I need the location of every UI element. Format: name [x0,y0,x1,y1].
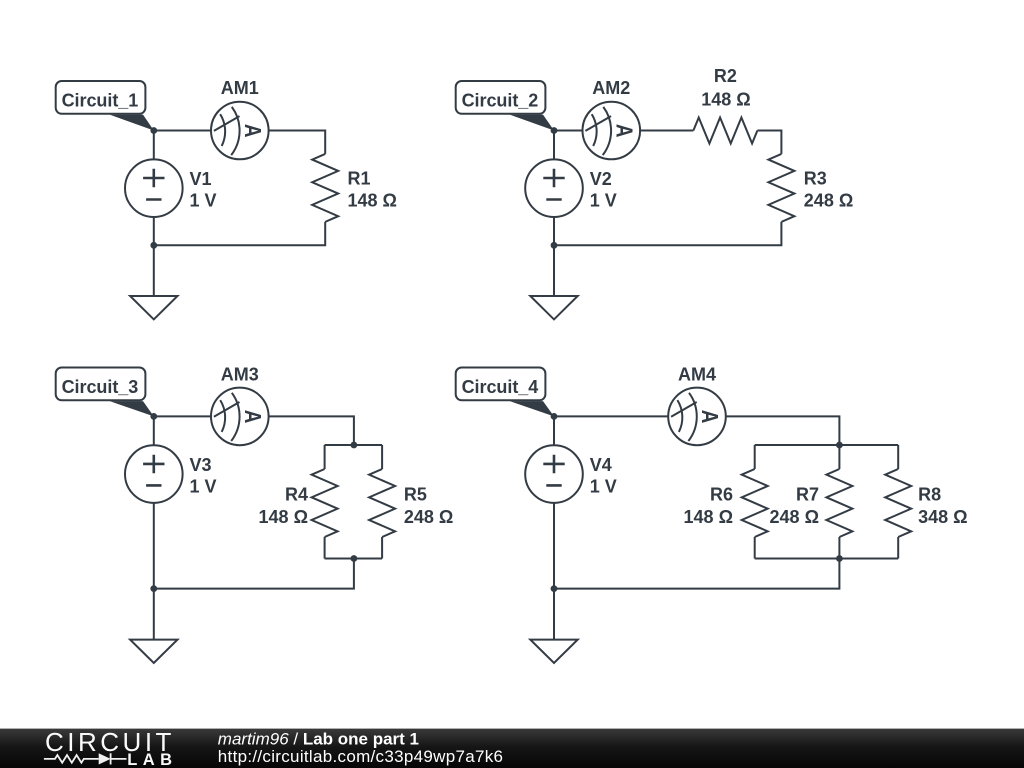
svg-text:1 V: 1 V [190,477,217,497]
resistor R4 (148 &#937;) [312,469,338,537]
svg-text:Circuit_3: Circuit_3 [62,377,139,397]
svg-text:248 Ω: 248 Ω [404,507,453,527]
wire [640,130,693,132]
svg-text:148 Ω: 148 Ω [348,191,397,211]
junction dot [551,413,558,420]
wire [154,559,354,589]
voltage source V2 [525,159,583,217]
wire [325,444,383,446]
wire [553,416,555,445]
wire [381,445,383,469]
wire [153,503,155,589]
svg-text:248 Ω: 248 Ω [770,507,819,527]
svg-text:Circuit_2: Circuit_2 [462,90,539,110]
wire [153,131,155,160]
wire [153,589,155,640]
ammeter AM2 [583,102,641,160]
wire [153,416,155,445]
ammeter AM1 [211,102,269,160]
resistor R8 (348 &#937;) [885,469,911,537]
svg-text:R1: R1 [348,169,371,189]
wire [553,217,555,245]
wire [553,131,555,160]
wire [154,222,325,245]
net flag Circuit_4 [456,368,546,401]
ground (circuit 3) [130,640,177,663]
wire [838,445,840,469]
wire [154,130,211,132]
wire [554,222,781,245]
resistor R3 (248 &#937;) [768,154,794,222]
svg-text:248 Ω: 248 Ω [804,191,853,211]
svg-text:1 V: 1 V [590,477,617,497]
svg-text:Circuit_4: Circuit_4 [462,377,539,397]
wire [154,415,211,417]
svg-text:V4: V4 [590,455,612,475]
ground (circuit 2) [530,296,577,319]
svg-text:348 Ω: 348 Ω [918,507,967,527]
wire [726,416,839,445]
net flag Circuit_3 [56,368,146,401]
svg-text:V1: V1 [190,169,212,189]
junction dot [150,127,157,134]
resistor R1 (148 &#937;) [312,154,338,222]
svg-text:http://circuitlab.com/c33p49wp: http://circuitlab.com/c33p49wp7a7k6 [218,747,504,766]
junction dot [150,413,157,420]
wire [755,558,899,560]
svg-text:V3: V3 [190,455,212,475]
svg-text:148 Ω: 148 Ω [684,507,733,527]
wire [897,445,899,469]
logo resistor-diode line [44,753,127,764]
junction dot [551,242,558,249]
wire [553,589,555,640]
svg-text:1 V: 1 V [190,191,217,211]
wire [554,559,839,589]
wire [269,131,325,154]
voltage source V4 [525,445,583,503]
wire [324,537,326,559]
junction dot [150,242,157,249]
junction dot [150,585,157,592]
junction dot [351,555,358,562]
wire [897,537,899,559]
wire [269,416,354,445]
junction dot [551,585,558,592]
net flag Circuit_2 [456,81,546,114]
wire [757,131,781,154]
svg-text:R2: R2 [714,66,737,86]
svg-text:R6: R6 [710,484,733,504]
wire [153,217,155,245]
svg-text:AM2: AM2 [592,78,630,98]
wire [754,537,756,559]
resistor R5 (248 &#937;) [369,469,395,537]
ground (circuit 1) [130,296,177,319]
svg-text:148 Ω: 148 Ω [259,507,308,527]
voltage source V1 [125,159,183,217]
junction dot [836,442,843,449]
junction dot [551,127,558,134]
svg-text:AM3: AM3 [221,364,259,384]
junction dot [351,442,358,449]
wire [554,130,582,132]
footer black bar [0,729,1024,768]
voltage source V3 [125,445,183,503]
svg-text:AM1: AM1 [221,78,259,98]
wire [755,444,899,446]
resistor R2 (148 &#937;) [693,118,757,144]
ammeter AM4 [668,388,726,446]
ammeter AM3 [211,388,269,446]
svg-text:V2: V2 [590,169,612,189]
svg-text:R5: R5 [404,484,427,504]
wire [381,537,383,559]
junction dot [836,555,843,562]
svg-text:Circuit_1: Circuit_1 [62,90,139,110]
wire [153,245,155,296]
net flag Circuit_1 [56,81,146,114]
svg-text:R3: R3 [804,169,827,189]
svg-text:R4: R4 [285,484,308,504]
svg-text:R7: R7 [796,484,819,504]
wire [754,445,756,469]
resistor R6 (148 &#937;) [742,469,768,537]
wire [553,245,555,296]
svg-text:martim96 / Lab one part 1: martim96 / Lab one part 1 [218,730,419,749]
resistor R7 (248 &#937;) [826,469,852,537]
ground (circuit 4) [530,640,577,663]
wire [324,445,326,469]
wire [553,503,555,589]
wire [838,537,840,559]
wire [554,415,668,417]
svg-text:R8: R8 [918,484,941,504]
svg-text:LAB: LAB [127,751,177,768]
logo diode triangle [99,753,111,764]
svg-text:AM4: AM4 [678,364,716,384]
svg-text:1 V: 1 V [590,191,617,211]
svg-text:148 Ω: 148 Ω [701,90,750,110]
wire [325,558,383,560]
